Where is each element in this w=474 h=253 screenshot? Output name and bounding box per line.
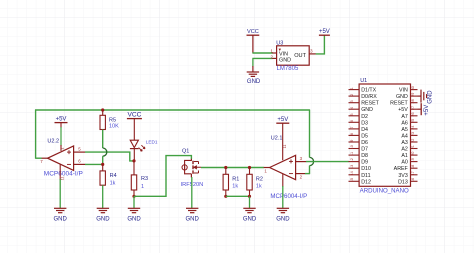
power flag VCC (regulator input net) bbox=[247, 29, 260, 35]
ground GND below U2.2 bbox=[54, 208, 68, 222]
U2.1 positive supply pin wire bbox=[283, 123, 287, 160]
svg-text:R4: R4 bbox=[110, 173, 117, 179]
wire U2.1 pin 3 to Arduino D9 bbox=[306, 161, 349, 163]
U1 pin 11 D8 bbox=[349, 152, 369, 159]
U2.2 negative supply pin wire to ground bbox=[60, 164, 64, 208]
U2.1 value MCP6004-I/P bbox=[270, 193, 307, 200]
U2.1 negative supply pin wire to ground bbox=[282, 174, 284, 209]
svg-text:4: 4 bbox=[61, 148, 65, 150]
svg-text:A3: A3 bbox=[401, 140, 408, 146]
Q1 value IRF520N bbox=[181, 182, 204, 188]
wire VCC to U3 VIN bbox=[252, 35, 272, 53]
U1 pin 3 RESET bbox=[349, 100, 380, 106]
svg-text:GND: GND bbox=[243, 216, 257, 222]
transistor Q1 IRF520N bbox=[182, 159, 201, 178]
wire R3 junction to Q1 gate bbox=[134, 156, 191, 197]
U1 pin 6 D3 bbox=[349, 120, 369, 126]
resistor R3 1 bbox=[131, 161, 148, 190]
Q1 reference label bbox=[182, 148, 189, 154]
U1 pin 10 D7 bbox=[349, 145, 369, 152]
U2.2 reference label bbox=[47, 139, 59, 145]
svg-text:R1: R1 bbox=[232, 176, 239, 182]
svg-text:+5V: +5V bbox=[56, 117, 67, 123]
svg-text:13: 13 bbox=[350, 165, 354, 169]
U3 pin 3 OUT bbox=[294, 49, 316, 60]
svg-text:+5V: +5V bbox=[424, 105, 430, 116]
svg-text:D1/TX: D1/TX bbox=[361, 88, 376, 94]
svg-text:9: 9 bbox=[350, 140, 354, 142]
U1 pin 18 AREF bbox=[394, 165, 418, 172]
svg-text:4: 4 bbox=[350, 107, 354, 109]
wire pin 6 to R5/R4 junction bbox=[85, 163, 103, 165]
svg-text:R5: R5 bbox=[109, 118, 116, 124]
wire feedback top horizontal bbox=[35, 109, 310, 111]
U2.1 pin 2 inverting input bbox=[296, 174, 306, 180]
svg-text:A5: A5 bbox=[401, 127, 408, 133]
svg-text:AREF: AREF bbox=[394, 166, 409, 172]
U1 pin 27 +5V bbox=[398, 106, 417, 113]
U1 pin 29 GND bbox=[396, 93, 417, 100]
svg-text:GND: GND bbox=[96, 216, 110, 222]
U1 pin 5 D2 bbox=[349, 113, 369, 119]
wire GND symbol to U3 GND pin bbox=[252, 57, 272, 59]
svg-text:MCP6004-I/P: MCP6004-I/P bbox=[44, 170, 83, 177]
U1 pin 21 A2 bbox=[401, 145, 417, 152]
svg-text:29: 29 bbox=[411, 93, 415, 97]
svg-text:A6: A6 bbox=[401, 120, 408, 126]
U3 value LM7805 bbox=[277, 66, 299, 72]
svg-text:+5V: +5V bbox=[319, 29, 330, 35]
svg-text:5: 5 bbox=[350, 113, 354, 115]
U1 value ARDUINO_NANO bbox=[360, 187, 409, 194]
svg-text:24: 24 bbox=[411, 125, 415, 129]
wire R5 bottom to hop bbox=[102, 130, 104, 149]
U1 pin 23 A4 bbox=[401, 132, 417, 139]
wire hop bottom to junction bbox=[102, 156, 104, 164]
svg-text:1k: 1k bbox=[232, 184, 238, 190]
svg-text:2: 2 bbox=[350, 94, 354, 96]
ground GND below R4 bbox=[96, 208, 110, 222]
wire Q1 source to ground bbox=[191, 177, 193, 208]
svg-text:20: 20 bbox=[411, 152, 415, 156]
svg-text:D9: D9 bbox=[361, 160, 368, 166]
U2.1 reference label bbox=[271, 136, 283, 142]
U1 pin 2 D0/RX bbox=[349, 94, 378, 100]
junction node R1 top bbox=[224, 166, 227, 169]
svg-text:D5: D5 bbox=[361, 133, 368, 139]
wire feedback right vertical upper bbox=[309, 110, 311, 158]
svg-text:12: 12 bbox=[350, 158, 354, 162]
svg-text:D12: D12 bbox=[361, 179, 371, 185]
resistor R2 1k bbox=[247, 168, 263, 191]
junction node R3 bottom bbox=[132, 195, 135, 198]
svg-text:3V3: 3V3 bbox=[398, 173, 407, 179]
U1 pin 15 D12 bbox=[349, 178, 371, 185]
svg-text:Q1: Q1 bbox=[182, 148, 189, 154]
U2.2 positive supply pin wire bbox=[61, 123, 65, 151]
svg-text:GND: GND bbox=[186, 216, 200, 222]
power flag +5V above U2.2 bbox=[55, 117, 68, 123]
U1 pin 8 D5 bbox=[349, 133, 369, 139]
svg-text:LED1: LED1 bbox=[146, 140, 158, 145]
U2.2 value MCP6004-I/P bbox=[44, 170, 83, 177]
wire feedback right vertical lower to U2.1 pin 2 bbox=[309, 166, 311, 175]
svg-text:10: 10 bbox=[350, 145, 354, 149]
U1 pin 4 GND bbox=[349, 107, 374, 113]
svg-text:11: 11 bbox=[60, 177, 64, 181]
svg-text:GND: GND bbox=[54, 216, 68, 222]
U2.2 pin 6 inverting input bbox=[74, 159, 86, 165]
svg-text:D7: D7 bbox=[361, 147, 368, 153]
svg-text:18: 18 bbox=[411, 165, 415, 169]
svg-text:ARDUINO_NANO: ARDUINO_NANO bbox=[360, 187, 409, 194]
svg-text:GND: GND bbox=[276, 216, 290, 222]
microcontroller U1 body bbox=[359, 84, 410, 186]
svg-text:14: 14 bbox=[350, 171, 354, 175]
wire hop (R5 wire over pin5 wire) bbox=[103, 148, 107, 156]
svg-text:+5V: +5V bbox=[277, 117, 288, 123]
U1 reference label bbox=[360, 78, 367, 84]
junction on feedback wire at R5 top bbox=[101, 108, 104, 111]
U1 pin 24 A5 bbox=[401, 125, 417, 132]
svg-text:7: 7 bbox=[350, 127, 354, 129]
svg-text:8: 8 bbox=[350, 133, 354, 135]
svg-text:VIN: VIN bbox=[399, 88, 408, 94]
U2.2 pin 5 non-inverting input bbox=[74, 146, 86, 152]
wire U2.1 pin 2 stub bbox=[305, 173, 310, 175]
svg-text:OUT: OUT bbox=[294, 53, 306, 59]
svg-text:27: 27 bbox=[411, 106, 415, 110]
svg-text:25: 25 bbox=[411, 119, 415, 123]
svg-text:U2.2: U2.2 bbox=[47, 139, 59, 145]
svg-text:VCC: VCC bbox=[247, 29, 259, 35]
junction node R2 top bbox=[248, 166, 251, 169]
U1 pin 19 A0 bbox=[401, 158, 417, 165]
U1 pin 7 D4 bbox=[349, 127, 369, 133]
svg-text:1k: 1k bbox=[110, 181, 116, 187]
svg-text:U2.1: U2.1 bbox=[271, 136, 283, 142]
wire hop (vertical over D9 wire) bbox=[310, 157, 314, 165]
U1 pin 1 D1/TX bbox=[349, 87, 377, 93]
svg-text:D0/RX: D0/RX bbox=[361, 94, 377, 100]
svg-text:A1: A1 bbox=[401, 153, 408, 159]
svg-text:16: 16 bbox=[411, 178, 415, 182]
wire R3 junction to ground bbox=[133, 196, 135, 208]
ground GND flag right of U1 (rotated) bbox=[418, 90, 434, 104]
U3 pin 1 VIN bbox=[270, 49, 288, 58]
power flag +5V above U2.1 bbox=[276, 117, 289, 123]
ground GND below R3 bbox=[127, 208, 141, 222]
svg-text:D13: D13 bbox=[398, 179, 408, 185]
svg-text:GND: GND bbox=[127, 216, 141, 222]
junction node LED cathode / R3 / pin5 wire bbox=[132, 159, 135, 162]
svg-text:1k: 1k bbox=[256, 184, 262, 190]
U3 reference label bbox=[276, 40, 283, 46]
wire U2.2 output to loop bbox=[35, 157, 42, 159]
svg-text:GND: GND bbox=[396, 94, 408, 100]
svg-text:D8: D8 bbox=[361, 153, 368, 159]
R3 bottom lead bbox=[133, 190, 135, 196]
svg-text:U1: U1 bbox=[360, 78, 367, 84]
svg-text:MCP6004-I/P: MCP6004-I/P bbox=[270, 193, 307, 200]
U2.2 pin 7 output bbox=[40, 158, 48, 164]
svg-text:D2: D2 bbox=[361, 114, 368, 120]
wire R2 junction to ground bbox=[249, 196, 251, 208]
svg-text:28: 28 bbox=[411, 99, 415, 103]
svg-text:22: 22 bbox=[411, 139, 415, 143]
junction node R5/R4/pin6 bbox=[101, 163, 104, 166]
svg-text:1: 1 bbox=[350, 87, 354, 89]
svg-text:RESET: RESET bbox=[361, 101, 379, 107]
svg-text:3: 3 bbox=[350, 100, 354, 102]
U1 pin 12 D9 bbox=[349, 158, 369, 165]
U1 pin 26 A7 bbox=[401, 112, 417, 119]
svg-text:D3: D3 bbox=[361, 120, 368, 126]
U2.1 pin 1 output bbox=[264, 168, 270, 174]
R2 bottom lead bbox=[249, 190, 251, 196]
resistor R4 1k bbox=[100, 164, 117, 186]
ground GND below Q1 bbox=[186, 208, 200, 222]
svg-text:D6: D6 bbox=[361, 140, 368, 146]
wire VCC to LED anode bbox=[133, 119, 135, 141]
svg-text:26: 26 bbox=[411, 112, 415, 116]
svg-text:30: 30 bbox=[411, 86, 415, 90]
resistor R5 10K bbox=[100, 110, 119, 130]
wire Q1 drain to U2.1 output bbox=[201, 167, 264, 169]
svg-text:LM7805: LM7805 bbox=[277, 66, 299, 72]
LED LED1 bbox=[130, 140, 145, 161]
svg-text:21: 21 bbox=[411, 145, 415, 149]
R1 bottom lead bbox=[225, 190, 227, 196]
svg-text:VCC: VCC bbox=[127, 112, 141, 119]
svg-text:GND: GND bbox=[247, 79, 261, 85]
svg-text:GND: GND bbox=[361, 107, 373, 113]
svg-text:A7: A7 bbox=[401, 114, 408, 120]
svg-text:10K: 10K bbox=[109, 124, 119, 130]
power flag VCC above LED bbox=[127, 112, 142, 119]
U1 pin 30 VIN bbox=[399, 86, 418, 93]
svg-text:11: 11 bbox=[350, 152, 354, 156]
svg-text:A2: A2 bbox=[401, 147, 408, 153]
svg-text:6: 6 bbox=[350, 120, 354, 122]
wire R1 bottom to R2 bottom bbox=[226, 195, 250, 197]
svg-text:D11: D11 bbox=[361, 173, 370, 179]
svg-text:A4: A4 bbox=[401, 133, 408, 139]
ground GND below R1/R2 bbox=[243, 208, 257, 222]
U1 pin 9 D6 bbox=[349, 140, 369, 146]
voltage regulator U3 body bbox=[277, 46, 310, 65]
svg-text:23: 23 bbox=[411, 132, 415, 136]
wire loop left vertical bbox=[35, 110, 37, 159]
junction node R1 bottom bbox=[224, 195, 227, 198]
svg-text:D10: D10 bbox=[361, 166, 371, 172]
svg-text:VIN: VIN bbox=[279, 51, 288, 57]
U3 pin 2 GND bbox=[270, 54, 291, 63]
svg-text:+5V: +5V bbox=[398, 107, 408, 113]
U1 pin 16 D13 bbox=[398, 178, 417, 185]
U1 pin 25 A6 bbox=[401, 119, 417, 126]
svg-text:19: 19 bbox=[411, 158, 415, 162]
svg-text:17: 17 bbox=[411, 171, 415, 175]
svg-text:R3: R3 bbox=[141, 176, 148, 182]
wire R4 bottom to ground bbox=[102, 185, 104, 208]
svg-text:11: 11 bbox=[283, 145, 287, 149]
svg-text:GND: GND bbox=[428, 90, 434, 104]
U1 pin 14 D11 bbox=[349, 171, 371, 179]
U1 pin 17 3V3 bbox=[398, 171, 417, 179]
U1 pin 20 A1 bbox=[401, 152, 417, 159]
LED1 reference label bbox=[146, 140, 158, 145]
svg-text:A0: A0 bbox=[401, 160, 408, 166]
wire U3 OUT to +5V flag bbox=[316, 35, 325, 54]
resistor R1 1k bbox=[223, 168, 239, 191]
U1 pin 28 RESET bbox=[390, 99, 417, 106]
op-amp U2.2 triangle bbox=[48, 146, 74, 170]
junction node R2 bottom bbox=[248, 195, 251, 198]
svg-text:U3: U3 bbox=[276, 40, 283, 46]
wire pin 5 to LED junction bbox=[85, 152, 134, 161]
ground GND below U2.1 bbox=[276, 208, 290, 222]
U1 pin 22 A3 bbox=[401, 139, 417, 146]
svg-text:RESET: RESET bbox=[390, 101, 408, 107]
ground GND (regulator) bbox=[247, 58, 261, 85]
power flag +5V right of U1 (rotated) bbox=[418, 103, 431, 115]
op-amp U2.1 triangle bbox=[270, 155, 296, 179]
svg-text:D4: D4 bbox=[361, 127, 368, 133]
power flag +5V (regulator output) bbox=[319, 29, 330, 35]
svg-text:GND: GND bbox=[279, 58, 291, 64]
U1 pin 13 D10 bbox=[349, 165, 371, 172]
svg-text:R2: R2 bbox=[256, 176, 263, 182]
U2.1 pin 3 non-inverting input bbox=[296, 156, 307, 162]
svg-text:1: 1 bbox=[141, 184, 144, 190]
svg-text:15: 15 bbox=[350, 178, 354, 182]
